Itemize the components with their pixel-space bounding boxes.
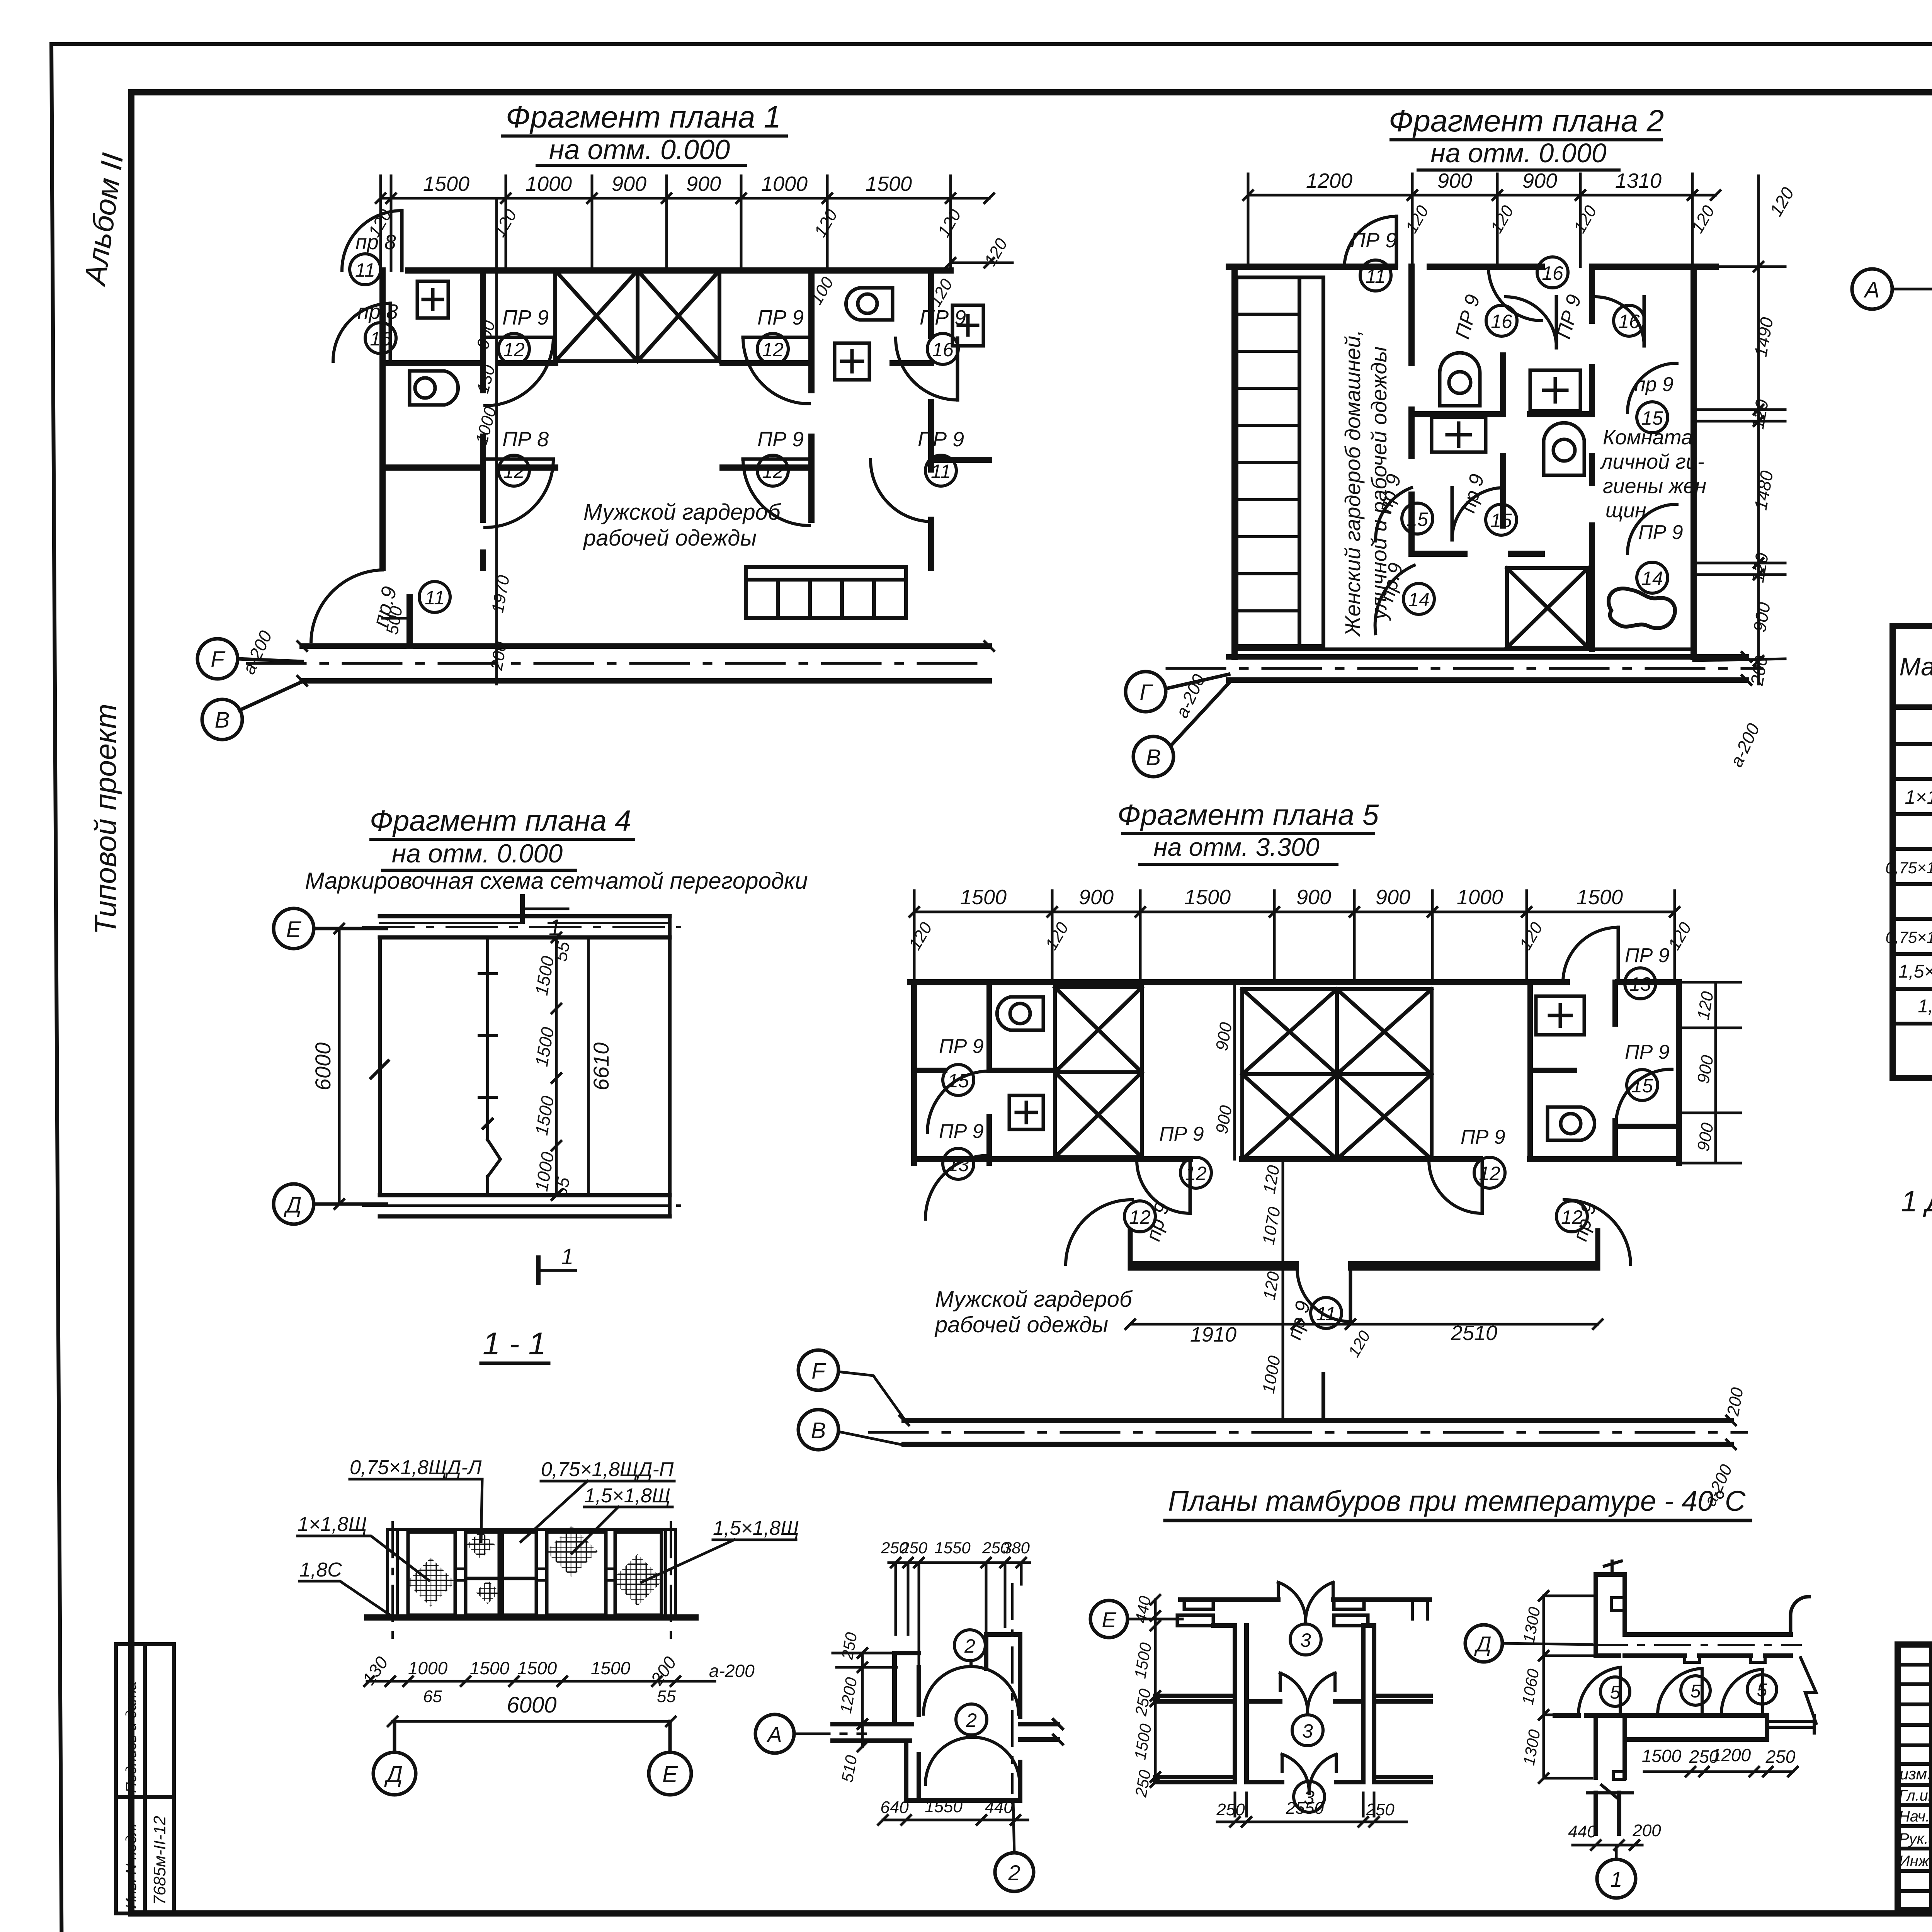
svg-text:16: 16	[1618, 311, 1640, 332]
svg-text:Подпись и дата: Подпись и дата	[123, 1682, 139, 1793]
plan 1 door 16 left	[333, 300, 398, 361]
svg-text:на отм. 0.000: на отм. 0.000	[392, 839, 563, 868]
svg-text:рабочей одежды: рабочей одежды	[583, 526, 757, 551]
plan 2 vertical room labels	[1340, 330, 1391, 637]
plan 5 door 11 center	[1283, 1268, 1350, 1342]
plan 1 room label	[583, 500, 781, 551]
tambour plan 3 dims	[1131, 1594, 1406, 1827]
svg-text:900: 900	[1376, 886, 1410, 909]
section leader labels	[298, 1456, 799, 1581]
svg-text:F: F	[211, 647, 226, 672]
plan 3 axis circle A	[1852, 269, 1892, 309]
section panels	[408, 1532, 662, 1615]
svg-text:пр 9: пр 9	[1634, 373, 1673, 396]
svg-text:Е: Е	[662, 1761, 678, 1787]
svg-text:пр 8: пр 8	[355, 231, 396, 254]
svg-text:55: 55	[550, 1175, 573, 1199]
svg-text:Комната: Комната	[1603, 426, 1693, 449]
plan 4 section mark top	[522, 896, 568, 940]
svg-text:15: 15	[1490, 510, 1512, 531]
plan 5 door 15 right	[1616, 1041, 1672, 1125]
spec table rows	[1885, 713, 1932, 1017]
svg-text:120: 120	[1260, 1164, 1283, 1195]
svg-text:а-200: а-200	[1172, 671, 1209, 721]
plan 2 shelving ladder	[1236, 277, 1323, 646]
fragment plan 2	[1126, 104, 1798, 777]
tambour plan 5 axis 1	[1597, 1845, 1636, 1898]
svg-text:200: 200	[646, 1653, 680, 1689]
svg-text:11: 11	[1316, 1303, 1336, 1325]
plan 4 mesh partition	[479, 937, 500, 1195]
svg-text:0,75×1,8щд-п: 0,75×1,8щд-п	[1886, 928, 1932, 946]
svg-text:11: 11	[931, 461, 951, 482]
plan 2 door 14 right	[1628, 504, 1683, 593]
plan 1 axis circle F	[197, 639, 302, 679]
section posts	[388, 1522, 675, 1642]
spec table grid	[1893, 626, 1932, 1078]
plan 4 title	[305, 804, 808, 894]
svg-text:Планы тамбуров при температ: Планы тамбуров при температуре - 40°С	[1168, 1485, 1746, 1517]
plan 2 axis circle В	[1133, 683, 1229, 777]
svg-text:1500: 1500	[531, 954, 558, 997]
svg-text:Д: Д	[284, 1192, 302, 1218]
svg-text:на отм. 0.000: на отм. 0.000	[1430, 138, 1606, 168]
svg-text:личной ги-: личной ги-	[1600, 450, 1704, 473]
svg-text:130: 130	[473, 363, 499, 395]
svg-text:510: 510	[838, 1753, 861, 1784]
svg-text:14: 14	[1641, 568, 1663, 589]
svg-text:250: 250	[1131, 1768, 1154, 1799]
section ground line	[367, 1614, 696, 1621]
svg-text:1300: 1300	[1519, 1728, 1544, 1767]
svg-text:1,8С: 1,8С	[299, 1559, 342, 1581]
svg-text:250: 250	[1216, 1800, 1245, 1819]
svg-text:1310: 1310	[1615, 169, 1662, 192]
plan 4 inner dim string	[531, 933, 613, 1200]
svg-text:щин: щин	[1605, 499, 1646, 522]
svg-text:1500: 1500	[1577, 886, 1623, 909]
svg-text:15: 15	[1406, 509, 1428, 530]
svg-text:900: 900	[686, 172, 721, 196]
tambour plan 3 axis E	[1090, 1600, 1182, 1638]
plan 1 top dimension chain	[365, 172, 1012, 270]
svg-text:Мужской гардероб: Мужской гардероб	[583, 500, 781, 525]
svg-text:1×1,8Щ: 1×1,8Щ	[298, 1513, 367, 1536]
plan 1 sinks	[417, 281, 983, 380]
svg-text:440: 440	[1568, 1822, 1597, 1841]
svg-text:1500: 1500	[470, 1658, 510, 1678]
svg-text:Альбом II: Альбом II	[77, 151, 129, 288]
svg-text:ПР 9: ПР 9	[939, 1120, 984, 1143]
specification table	[1885, 550, 1932, 1078]
plan 5 sink left	[1009, 1095, 1043, 1129]
svg-text:13: 13	[1629, 973, 1651, 995]
plan 2 toilet upper	[1440, 353, 1480, 406]
svg-text:1500: 1500	[591, 1658, 631, 1678]
svg-text:уличной и рабочей одежды: уличной и рабочей одежды	[1367, 347, 1391, 621]
svg-text:120: 120	[1260, 1270, 1283, 1301]
plan 5 door 12 corridor-right	[1556, 1200, 1631, 1264]
plan 2 bottom axis wall	[1229, 657, 1747, 680]
svg-text:250: 250	[1366, 1800, 1395, 1819]
plan 2 room label hygiene	[1600, 426, 1706, 522]
plan 5 door 15 left	[927, 1035, 988, 1132]
svg-text:1500: 1500	[1184, 886, 1231, 909]
tambour plan 2 left dims	[833, 1631, 896, 1784]
svg-text:120: 120	[1570, 202, 1600, 236]
fragment plan 3	[1852, 130, 1932, 492]
plan 2 crossed box	[1507, 568, 1588, 648]
svg-text:1,5×1,8Щ: 1,5×1,8Щ	[584, 1485, 670, 1507]
plan 1 title	[506, 100, 781, 165]
svg-text:0,75×1,8ЩД-П: 0,75×1,8ЩД-П	[541, 1458, 674, 1481]
svg-text:ПР 9: ПР 9	[1625, 1041, 1670, 1063]
plan 1 toilet left	[410, 371, 458, 405]
tambour plan 2 axis A	[755, 1714, 866, 1753]
fragment plan 5	[798, 799, 1747, 1509]
svg-text:1,8С: 1,8С	[1918, 996, 1932, 1017]
svg-text:ПР 8: ПР 8	[502, 428, 549, 451]
svg-text:ПР 9: ПР 9	[1451, 292, 1485, 341]
svg-text:5: 5	[1690, 1681, 1701, 1702]
svg-text:гиены жен: гиены жен	[1603, 474, 1706, 498]
svg-text:6610: 6610	[589, 1043, 613, 1091]
svg-text:1000: 1000	[761, 172, 808, 196]
svg-text:15: 15	[947, 1070, 969, 1092]
svg-text:1480: 1480	[1750, 469, 1777, 512]
svg-text:Е: Е	[286, 917, 302, 942]
svg-text:1000: 1000	[1457, 886, 1503, 909]
plan 5 crossed box middle	[1242, 989, 1432, 1159]
svg-text:Типовой проект: Типовой проект	[88, 704, 122, 935]
section hatch patches	[406, 1526, 663, 1607]
svg-text:16: 16	[932, 339, 954, 361]
plan 2 door 16b	[1451, 292, 1556, 348]
svg-text:Мужской гардероб: Мужской гардероб	[935, 1287, 1133, 1312]
svg-text:Е: Е	[1102, 1607, 1116, 1632]
svg-text:рабочей одежды: рабочей одежды	[934, 1312, 1108, 1337]
tambour plan 2 walls	[833, 1634, 1063, 1801]
plan 5 right dim chain	[1679, 982, 1741, 1163]
svg-text:2510: 2510	[1451, 1321, 1497, 1345]
svg-text:120: 120	[1747, 398, 1772, 431]
svg-text:2550: 2550	[1286, 1799, 1324, 1818]
section axis circle D	[373, 1721, 416, 1795]
title block	[1898, 1645, 1932, 1910]
svg-text:12: 12	[1561, 1206, 1583, 1228]
plan 5 bottom axis wall	[904, 1420, 1731, 1444]
svg-text:1500: 1500	[1131, 1722, 1155, 1761]
plan 1 door 16 far-right	[896, 306, 966, 400]
svg-text:Маркировочная схема сетчатой п: Маркировочная схема сетчатой перегородки	[305, 868, 808, 894]
plan 1 door 12 mid-lower	[485, 428, 553, 527]
svg-text:16: 16	[1542, 262, 1563, 284]
svg-text:0,75×1,8щд-л: 0,75×1,8щд-л	[1885, 859, 1932, 877]
plan 2 walls	[1229, 267, 1716, 657]
section lower dims	[359, 1653, 755, 1726]
svg-text:11: 11	[355, 259, 375, 281]
svg-text:2: 2	[966, 1709, 977, 1731]
plan 5 door 13 top-right	[1563, 927, 1670, 999]
plan 2 right dim chain	[1694, 176, 1798, 770]
plan 4 side walls	[371, 916, 670, 1216]
svg-text:1200: 1200	[1306, 169, 1352, 192]
svg-text:900: 900	[1694, 1054, 1717, 1085]
svg-text:12: 12	[762, 339, 784, 361]
svg-text:0,75×1,8ЩД-Л: 0,75×1,8ЩД-Л	[350, 1456, 482, 1479]
svg-text:1500: 1500	[531, 1094, 558, 1137]
svg-text:55: 55	[550, 940, 573, 963]
svg-text:6000: 6000	[311, 1043, 335, 1091]
plan 5 axis circle F	[798, 1350, 904, 1419]
svg-text:11: 11	[1366, 265, 1386, 287]
plan 4 section mark bottom	[538, 1244, 576, 1283]
svg-text:ПР 9: ПР 9	[757, 306, 804, 329]
plan 5 top dimension chain	[905, 886, 1695, 982]
svg-text:900: 900	[1749, 601, 1774, 634]
svg-text:250: 250	[900, 1539, 928, 1557]
plan 5 mid wall	[914, 1156, 1679, 1162]
svg-text:120: 120	[1765, 184, 1798, 219]
plan 5 left rooms	[914, 982, 1055, 1163]
plan 1 door 11 far-right-lower	[871, 428, 964, 522]
svg-text:1000: 1000	[526, 172, 572, 196]
svg-text:120: 120	[1694, 990, 1717, 1021]
tambour plan 5 doors	[1578, 1667, 1777, 1716]
svg-text:1 - 1: 1 - 1	[483, 1326, 546, 1361]
plan 4 axis circle E	[274, 908, 386, 949]
svg-text:120: 120	[1516, 919, 1546, 953]
svg-text:ПР 9: ПР 9	[1461, 1126, 1505, 1148]
svg-text:1500: 1500	[960, 886, 1007, 909]
svg-text:900: 900	[473, 318, 499, 351]
spec table header	[1899, 646, 1932, 689]
svg-text:900: 900	[1079, 886, 1114, 909]
svg-text:900: 900	[1522, 169, 1557, 192]
plan 2 title	[1389, 104, 1664, 168]
plan 5 right rooms	[1530, 982, 1679, 1159]
svg-text:1490: 1490	[1750, 316, 1777, 358]
svg-text:120: 120	[1747, 551, 1772, 584]
plan 5 toilet right	[1548, 1107, 1595, 1140]
plan 1 crossed storage boxes	[555, 270, 719, 361]
svg-text:6000: 6000	[507, 1692, 556, 1718]
bottom-left stamp strip	[116, 1644, 174, 1913]
svg-text:16: 16	[1491, 311, 1512, 332]
plan 5 door 13 left-lower	[925, 1120, 988, 1219]
plan 1 door 12 right-upper	[743, 306, 810, 404]
plan 5 corridor dims	[1126, 982, 1602, 1420]
svg-text:1 Данный лист смотреть совмест: 1 Данный лист смотреть совместно с листа…	[1901, 1185, 1932, 1218]
plan 1 door 12 mid-upper	[485, 306, 553, 406]
svg-text:11: 11	[425, 587, 445, 609]
tambour plan 5 walls	[1596, 1561, 1816, 1723]
plan 1 door 12 right-lower	[743, 428, 810, 526]
svg-text:1550: 1550	[934, 1539, 971, 1557]
plan 1 bench	[746, 567, 906, 618]
svg-text:1: 1	[1610, 1867, 1622, 1891]
svg-text:Инженер: Инженер	[1899, 1853, 1932, 1870]
svg-text:пр 8: пр 8	[357, 300, 398, 323]
svg-text:120: 120	[981, 235, 1011, 269]
svg-text:ПР 9: ПР 9	[1625, 944, 1670, 967]
plan 5 axis circle B	[798, 1410, 904, 1450]
fragment plan 1	[197, 100, 1012, 740]
tambour plan 2 top dims	[881, 1539, 1030, 1665]
svg-text:Рук.груп.: Рук.груп.	[1899, 1830, 1932, 1847]
fragment plan 4	[274, 804, 808, 1283]
svg-text:1200: 1200	[836, 1676, 861, 1715]
svg-text:1,5×1,8Щ: 1,5×1,8Щ	[713, 1517, 799, 1539]
svg-text:А: А	[766, 1722, 782, 1747]
svg-text:а-200: а-200	[1726, 720, 1764, 770]
svg-text:1200: 1200	[1711, 1745, 1751, 1765]
svg-text:а-200: а-200	[709, 1661, 755, 1681]
svg-text:5: 5	[1757, 1680, 1767, 1701]
tambour plan 2 doors	[923, 1630, 1020, 1784]
svg-text:1300: 1300	[1519, 1605, 1544, 1645]
svg-text:12: 12	[1185, 1163, 1207, 1184]
plan 5 sink right	[1536, 996, 1584, 1035]
svg-text:1000: 1000	[1259, 1354, 1284, 1395]
svg-text:3: 3	[1302, 1720, 1313, 1742]
svg-text:120: 120	[1402, 202, 1432, 236]
svg-text:Нач.сект: Нач.сект	[1899, 1808, 1932, 1825]
svg-text:ПР 9: ПР 9	[1159, 1123, 1204, 1145]
svg-text:1000: 1000	[408, 1658, 448, 1678]
plan 5 door 12 corridor-left	[1066, 1200, 1174, 1264]
svg-text:1,5×1,8щ: 1,5×1,8щ	[1898, 961, 1932, 982]
plan 2 sinks	[1432, 370, 1580, 452]
svg-text:Д: Д	[384, 1761, 403, 1787]
svg-text:1070: 1070	[1259, 1206, 1284, 1246]
svg-text:ПР 9: ПР 9	[918, 428, 964, 451]
svg-text:ПР 9: ПР 9	[1350, 229, 1397, 252]
plan 5 title	[1117, 799, 1379, 861]
svg-text:120: 120	[1042, 919, 1072, 953]
svg-text:1500: 1500	[1642, 1746, 1682, 1766]
plan 2 toilet lower	[1544, 423, 1584, 475]
svg-text:200: 200	[1723, 1386, 1747, 1418]
svg-text:12: 12	[1129, 1206, 1151, 1228]
svg-text:а-200: а-200	[238, 628, 276, 677]
svg-text:1910: 1910	[1190, 1323, 1236, 1346]
svg-text:Г: Г	[1139, 680, 1153, 705]
svg-text:900: 900	[1437, 169, 1472, 192]
svg-text:5: 5	[1610, 1682, 1621, 1703]
svg-text:250: 250	[1131, 1687, 1154, 1718]
svg-text:F: F	[811, 1359, 827, 1384]
svg-text:380: 380	[1003, 1539, 1030, 1557]
svg-text:440: 440	[985, 1798, 1013, 1817]
svg-text:1500: 1500	[1131, 1641, 1155, 1680]
svg-text:14: 14	[1408, 589, 1430, 611]
svg-text:Фрагмент плана 5: Фрагмент плана 5	[1117, 799, 1379, 832]
svg-text:16: 16	[370, 328, 391, 350]
plan 5 top wall	[910, 982, 1679, 1163]
section 1-1	[298, 1326, 799, 1795]
svg-text:120: 120	[1345, 1327, 1374, 1360]
svg-text:1060: 1060	[1518, 1667, 1543, 1706]
svg-text:Женский гардероб домашней,: Женский гардероб домашней,	[1340, 330, 1365, 637]
svg-text:1500: 1500	[866, 172, 912, 196]
plan 2 bidet blob	[1609, 588, 1675, 628]
svg-text:2: 2	[1008, 1861, 1020, 1885]
svg-text:200: 200	[1632, 1821, 1661, 1840]
svg-text:ПР 9: ПР 9	[502, 306, 549, 329]
tambour plan 3 butterfly doors	[1278, 1582, 1336, 1812]
tambour plan 5 axis D	[1465, 1625, 1592, 1662]
svg-text:изм. лист: изм. лист	[1900, 1765, 1932, 1783]
svg-text:1500: 1500	[423, 172, 469, 196]
plan 5 door 12 mid-left	[1137, 1123, 1211, 1213]
svg-text:Фрагмент плана 1: Фрагмент плана 1	[506, 100, 781, 134]
svg-text:12: 12	[503, 339, 525, 361]
plan 1 door 11 top-left	[342, 211, 402, 285]
svg-text:120: 120	[934, 206, 965, 240]
svg-text:12: 12	[762, 461, 784, 482]
plan 4 bottom wall	[380, 1195, 670, 1216]
plan 2 door 16c	[1553, 292, 1645, 346]
svg-text:В: В	[1146, 745, 1161, 770]
plan 1 door 11 bottom-left	[311, 570, 450, 641]
sheet note	[1901, 1185, 1932, 1267]
plan 2 door 14 left	[1375, 561, 1434, 634]
svg-text:Фрагмент плана 2: Фрагмент плана 2	[1389, 104, 1664, 138]
svg-text:Инв. N подл.: Инв. N подл.	[123, 1823, 139, 1909]
plan 4 axis circle D	[274, 1184, 386, 1224]
plan 2 door 16a	[1488, 257, 1568, 321]
plan 1 bottom axis wall	[302, 646, 989, 681]
svg-text:900: 900	[612, 172, 646, 196]
plan 5 door 12 mid-right	[1429, 1126, 1505, 1213]
svg-text:1: 1	[561, 1244, 573, 1269]
svg-text:12: 12	[503, 461, 525, 482]
svg-text:55: 55	[657, 1687, 676, 1706]
plan 2 top dimension chain	[1243, 169, 1720, 267]
svg-text:2: 2	[964, 1635, 975, 1657]
tambour plan 5 lower walls	[1555, 1716, 1814, 1833]
plan 5 room label	[934, 1287, 1133, 1337]
svg-text:7685м-II-12: 7685м-II-12	[150, 1816, 169, 1905]
svg-text:120: 120	[1487, 202, 1517, 236]
plan 2 door 11	[1344, 216, 1397, 291]
svg-text:15: 15	[1631, 1075, 1653, 1097]
tambour plan 2 bottom dims	[878, 1797, 1028, 1825]
svg-text:на отм. 3.300: на отм. 3.300	[1153, 833, 1320, 861]
svg-text:Фрагмент плана 4: Фрагмент плана 4	[370, 804, 631, 837]
svg-text:1×1,8щ: 1×1,8щ	[1905, 786, 1932, 808]
svg-text:900: 900	[1212, 1021, 1236, 1052]
svg-text:В: В	[811, 1418, 826, 1443]
plan 1 axis circle B	[202, 682, 302, 740]
svg-text:900: 900	[1694, 1121, 1717, 1153]
svg-text:65: 65	[423, 1687, 442, 1706]
svg-text:ПР 9: ПР 9	[1638, 521, 1683, 544]
svg-text:ПР 9: ПР 9	[920, 306, 966, 329]
svg-text:Гл.инж.пр: Гл.инж.пр	[1899, 1787, 1932, 1804]
tambour plan 5 dims	[1518, 1591, 1798, 1850]
svg-text:1550: 1550	[925, 1797, 963, 1816]
svg-text:12: 12	[1479, 1163, 1500, 1184]
tambour plan 3 walls	[1155, 1600, 1430, 1782]
svg-text:Марка: Марка	[1899, 652, 1932, 681]
svg-text:пр 9: пр 9	[1457, 472, 1489, 515]
title block signature grid	[1932, 1645, 1932, 1910]
svg-text:250: 250	[1765, 1747, 1796, 1767]
svg-text:ПР 9: ПР 9	[757, 428, 804, 451]
svg-text:900: 900	[1296, 886, 1331, 909]
